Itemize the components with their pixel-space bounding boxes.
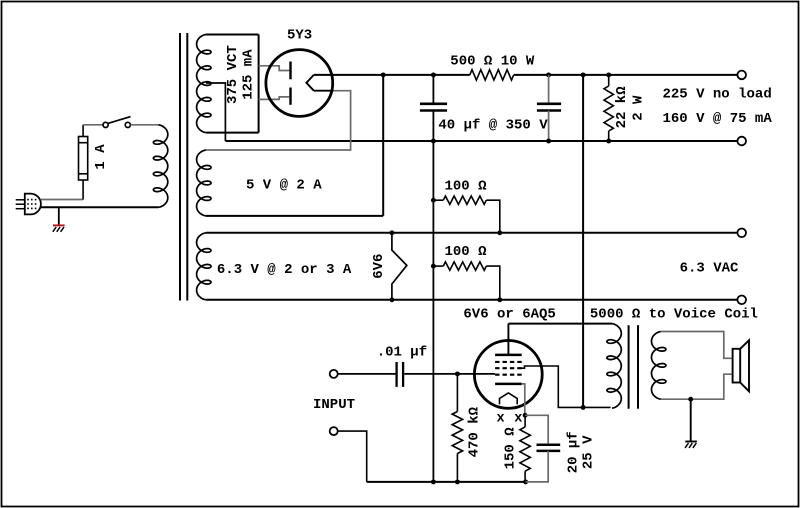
wire plug bottom run (41, 206, 159, 208)
5Y3 filament chevron (306, 75, 313, 91)
svg-text:500 Ω 10 W: 500 Ω 10 W (450, 53, 535, 69)
wire common rail B- (225, 140, 737, 142)
node grid / R5 top (455, 371, 460, 376)
wire to ground (690, 399, 692, 441)
node heater bottom left (389, 297, 394, 302)
capacitor C2 plates (537, 103, 561, 106)
speaker LS1 (733, 349, 741, 383)
node rail x433 (431, 479, 436, 484)
resistor R3 100 ohm hum 1 (433, 199, 443, 201)
ground chassis (plug) (53, 224, 65, 226)
output terminal 2 (737, 137, 746, 146)
svg-text:375 VCT: 375 VCT (225, 45, 241, 104)
node screen junction (581, 405, 586, 410)
node cap1 top (431, 72, 436, 77)
C4 lead bottom (526, 451, 549, 482)
6V6 grid dashes (495, 361, 522, 363)
resistor R4 100 ohm hum 2 (433, 265, 443, 267)
wire secondary top (661, 332, 733, 359)
wire HV center tap (206, 83, 226, 141)
wire plate to OT (508, 323, 612, 325)
T1 6.3V winding (197, 233, 211, 300)
svg-text:20 µf: 20 µf (566, 431, 582, 473)
node cap2 top (546, 72, 551, 77)
wire filament to 5V winding (206, 91, 351, 150)
output terminal 1 (737, 71, 746, 80)
6V6 cathode lead (522, 384, 525, 415)
5Y3 filament arm top (314, 74, 334, 76)
wire cathode to C4 (525, 415, 548, 444)
svg-text:2 W: 2 W (631, 95, 647, 121)
node B+ at 383 (381, 72, 386, 77)
svg-text:x: x (514, 411, 522, 426)
svg-text:6V6: 6V6 (371, 254, 387, 279)
wire 5V bottom (206, 215, 383, 217)
wire secondary bottom (661, 374, 733, 399)
node R3 left (431, 198, 436, 203)
svg-text:40 µf @ 350 V: 40 µf @ 350 V (438, 118, 548, 134)
svg-text:150 Ω: 150 Ω (502, 427, 518, 470)
6V6 beam plates tent (500, 393, 518, 405)
capacitor C3 .01uF (395, 362, 397, 387)
wire input to cap (338, 373, 396, 375)
svg-text:125 mA: 125 mA (241, 49, 257, 100)
5Y3 plate 2 (289, 88, 291, 105)
node rail x525 (523, 479, 528, 484)
resistor R1 500 ohm (470, 70, 514, 80)
wire cap to grid (404, 373, 495, 375)
T1 core line 2 (186, 33, 188, 301)
node cathode (523, 413, 528, 418)
wire input gnd drop (338, 431, 367, 482)
svg-text:5Y3: 5Y3 (287, 28, 312, 44)
wire heater top rail (206, 232, 738, 234)
svg-text:100 Ω: 100 Ω (445, 179, 488, 195)
node cap1 bottom (431, 139, 436, 144)
capacitor C1 lead bottom and ground drop (432, 111, 434, 482)
svg-text:5 V @ 2 A: 5 V @ 2 A (246, 178, 322, 194)
svg-text:6.3 VAC: 6.3 VAC (680, 261, 739, 277)
svg-text:6.3 V @ 2 or 3 A: 6.3 V @ 2 or 3 A (217, 262, 352, 278)
node bleeder top (606, 72, 611, 77)
T1 5V winding (197, 150, 211, 216)
wire HV bottom (206, 132, 259, 134)
wire heater bottom rail (206, 299, 738, 301)
transformer T2 primary (607, 324, 621, 409)
input jack hot (330, 370, 338, 378)
wire fuse to switch (83, 124, 103, 126)
T2 core line 2 (637, 325, 639, 409)
6V6 plate bar (495, 354, 522, 357)
svg-text:x: x (497, 411, 505, 426)
input jack gnd (330, 427, 338, 435)
svg-text:5000 Ω to Voice Coil: 5000 Ω to Voice Coil (590, 306, 758, 322)
fuse F1 1A (82, 180, 84, 200)
6V6 plate lead (507, 324, 509, 355)
resistor R6 150 ohm cathode (524, 415, 526, 427)
svg-text:225 V no load: 225 V no load (663, 87, 772, 103)
capacitor C1 40uF lead top (432, 75, 434, 103)
node R4 left (431, 264, 436, 269)
svg-text:22 kΩ: 22 kΩ (614, 86, 630, 129)
wire plate stub top (259, 66, 290, 71)
heater tap chevron 6V6 (392, 233, 407, 300)
svg-text:25 V: 25 V (580, 435, 596, 469)
svg-text:100 Ω: 100 Ω (445, 244, 488, 260)
capacitor C1 plates (420, 103, 447, 106)
svg-text:160 V @ 75 mA: 160 V @ 75 mA (663, 111, 773, 127)
node R4 right (497, 297, 502, 302)
capacitor C4 20uF plates (537, 443, 561, 446)
node heater top left (389, 230, 394, 235)
5Y3 plate 1 (289, 62, 291, 80)
rectifier tube V1 5Y3 envelope (266, 50, 333, 117)
svg-text:INPUT: INPUT (313, 397, 355, 413)
wire HV right rail (258, 35, 260, 133)
wire plug to fuse bottom (41, 199, 83, 201)
transformer T2 secondary (652, 332, 666, 400)
wire bottom ground rail (367, 481, 526, 483)
T2 core line 1 (628, 325, 630, 409)
output terminal 4 (737, 296, 746, 305)
node cap2 bottom (546, 139, 551, 144)
ground chassis (speaker) (685, 441, 697, 443)
wire switch to primary (131, 124, 159, 126)
wire plate stub bottom (259, 97, 290, 100)
node R3 right (497, 230, 502, 235)
svg-text:1 A: 1 A (93, 144, 109, 170)
capacitor C2 40uF lead top (548, 75, 550, 103)
wire HV top (206, 34, 259, 36)
svg-text:470 kΩ: 470 kΩ (466, 406, 482, 457)
5Y3 filament arm bottom (314, 90, 334, 92)
T1 HV secondary winding 375VCT (197, 35, 211, 133)
switch S1 (103, 122, 108, 127)
transformer T1 primary winding (153, 125, 167, 208)
T1 core line 1 (179, 33, 181, 301)
wire B+ rail right (514, 74, 738, 76)
wire screen feed vertical (582, 75, 584, 408)
node screen feed top (581, 72, 586, 77)
plug prongs (16, 199, 25, 201)
svg-text:6V6 or 6AQ5: 6V6 or 6AQ5 (463, 307, 555, 323)
wire B+ rail left (334, 74, 470, 76)
6V6 cathode bar (495, 383, 522, 386)
node bleeder bottom (606, 139, 611, 144)
svg-text:.01 µf: .01 µf (377, 344, 427, 360)
node speaker ground (688, 397, 693, 402)
6V6 screen connection (517, 366, 610, 407)
node rail x457 (455, 479, 460, 484)
resistor R5 470k grid leak (456, 374, 458, 412)
wire ground tap (58, 207, 60, 225)
capacitor C2 lead bottom (548, 111, 550, 142)
resistor R2 22k bleeder (608, 75, 610, 86)
AC plug P1 (25, 194, 41, 215)
output tube V2 6V6 envelope (474, 341, 542, 409)
output terminal 3 (737, 229, 746, 238)
wire B+ drop to 5V (382, 75, 384, 216)
